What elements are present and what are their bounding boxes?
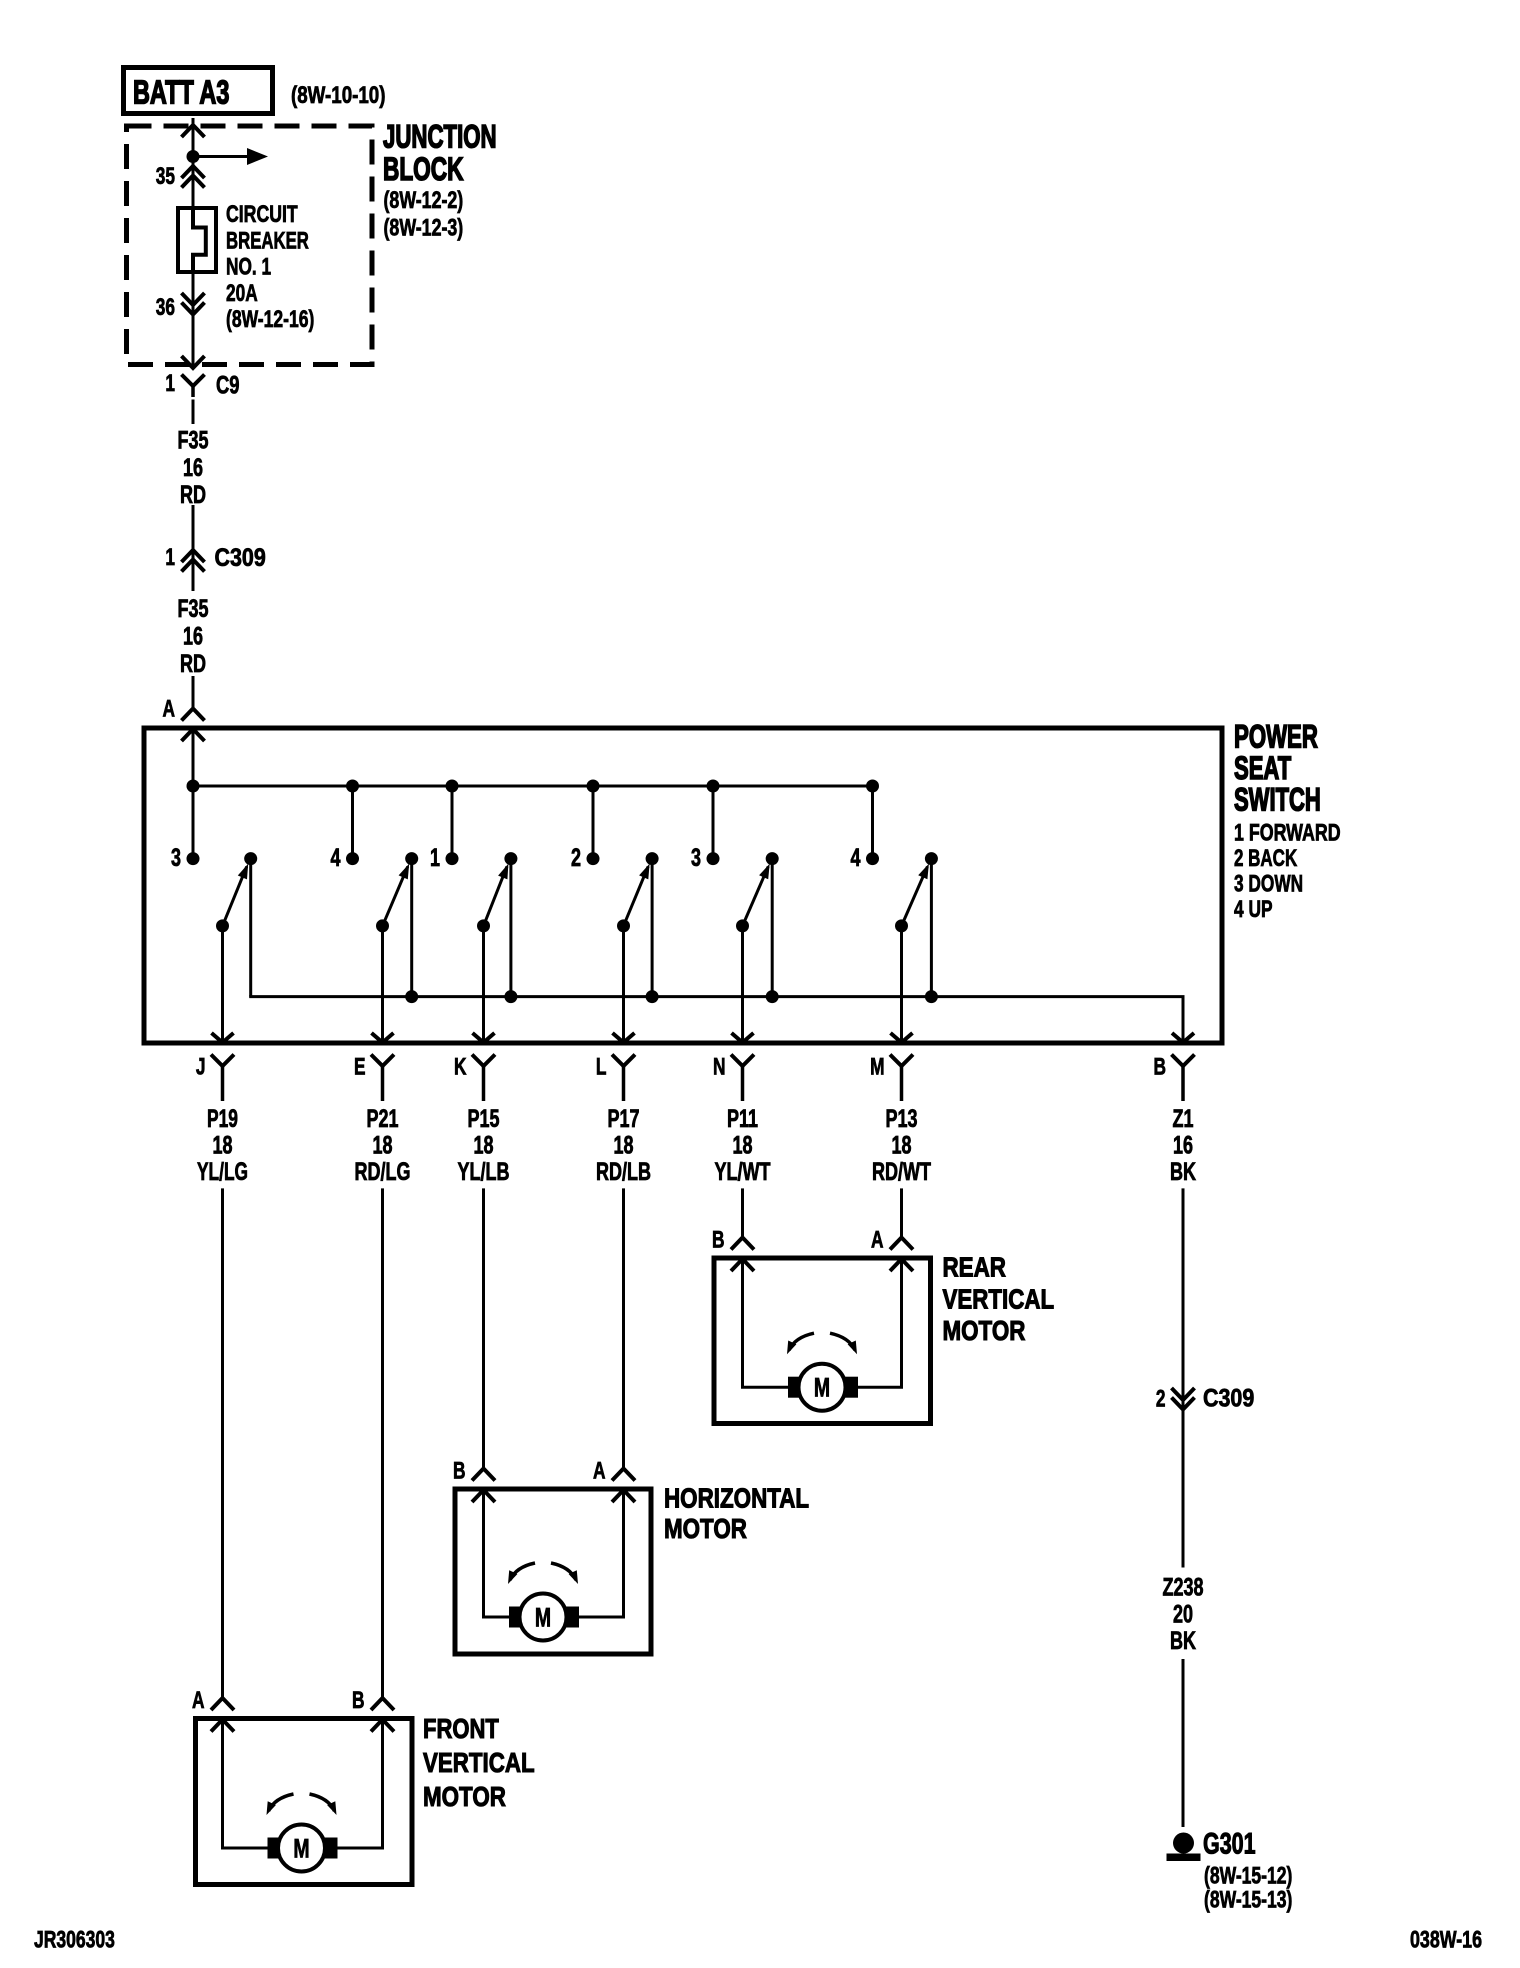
svg-text:YL/WT: YL/WT xyxy=(715,1158,771,1186)
svg-text:BLOCK: BLOCK xyxy=(383,151,464,187)
horizontal motor: pin A connector (motor side) xyxy=(612,1490,635,1502)
svg-text:4: 4 xyxy=(331,844,341,872)
horizontal motor: right lead wire xyxy=(563,1491,624,1618)
rear vertical motor: pin B connector (motor side) xyxy=(731,1259,754,1271)
svg-text:VERTICAL: VERTICAL xyxy=(943,1284,1055,1315)
svg-text:18: 18 xyxy=(213,1132,233,1160)
svg-text:(8W-15-12): (8W-15-12) xyxy=(1204,1863,1292,1890)
svg-text:B: B xyxy=(352,1687,365,1714)
svg-text:SWITCH: SWITCH xyxy=(1234,782,1321,818)
rear vertical motor: rotation arrows xyxy=(789,1333,814,1350)
splice dot at node xyxy=(187,150,200,163)
svg-text:Z238: Z238 xyxy=(1163,1574,1204,1602)
svg-text:(8W-12-2): (8W-12-2) xyxy=(384,187,464,214)
switch 3: wire contact down to common xyxy=(509,859,512,997)
svg-text:18: 18 xyxy=(614,1132,634,1160)
front vertical motor: left terminal xyxy=(268,1838,282,1859)
switch 4: wire contact down to common xyxy=(651,859,654,997)
front vertical motor: right lead wire xyxy=(322,1720,383,1848)
svg-text:3 DOWN: 3 DOWN xyxy=(1234,871,1303,898)
switch 5: wire contact down to common xyxy=(771,859,774,997)
svg-text:18: 18 xyxy=(892,1132,912,1160)
svg-text:F35: F35 xyxy=(178,595,209,623)
front vertical motor: right terminal xyxy=(324,1838,338,1859)
svg-text:BK: BK xyxy=(1170,1627,1196,1655)
svg-text:18: 18 xyxy=(474,1132,494,1160)
svg-text:L: L xyxy=(596,1054,607,1081)
switch 6: output arrow at box edge xyxy=(891,1033,913,1043)
svg-text:4 UP: 4 UP xyxy=(1234,896,1273,923)
common return output arrow at box edge xyxy=(1172,1033,1194,1043)
svg-text:18: 18 xyxy=(373,1132,393,1160)
switch 5: movable arm xyxy=(743,867,769,926)
switch 4: common line junction dot xyxy=(646,990,659,1003)
svg-text:2: 2 xyxy=(1156,1386,1166,1413)
switch 4: stub bus to contact xyxy=(592,786,595,859)
rear vertical motor: right lead wire xyxy=(842,1260,902,1388)
switch 3: output contact dot xyxy=(504,852,517,865)
svg-text:A: A xyxy=(871,1227,884,1254)
switch 5: pivot dot xyxy=(736,919,749,932)
switch 4: movable arm xyxy=(624,867,649,926)
switch 2: movable arm xyxy=(383,867,408,926)
connector chevron pin A (harness side) xyxy=(182,709,205,721)
rear vertical motor box xyxy=(714,1258,931,1424)
wire P21 to front vertical motor xyxy=(381,1188,384,1698)
switch 1: output arrow at box edge xyxy=(212,1033,234,1043)
switch 1: bus junction dot xyxy=(187,780,200,793)
switch 2: wire contact down to common xyxy=(410,859,413,997)
connector: double chevron pin 35 xyxy=(182,166,205,178)
svg-text:16: 16 xyxy=(183,454,203,482)
rear vertical motor: pin A connector (motor side) xyxy=(890,1259,913,1271)
rear vertical motor: motor body xyxy=(799,1364,846,1411)
svg-text:(8W-10-10): (8W-10-10) xyxy=(291,82,386,109)
svg-text:16: 16 xyxy=(1173,1132,1193,1160)
front vertical motor: pin B connector (harness) xyxy=(371,1698,394,1710)
feed arrow to other circuits xyxy=(193,155,248,158)
switch 3: common line junction dot xyxy=(504,990,517,1003)
switch 4: output arrow at box edge xyxy=(613,1033,635,1043)
svg-text:16: 16 xyxy=(183,623,203,651)
svg-text:18: 18 xyxy=(733,1132,753,1160)
svg-text:REAR: REAR xyxy=(943,1252,1007,1283)
internal bus wire xyxy=(193,785,873,788)
wire: breaker to junction block bottom xyxy=(192,274,195,366)
svg-text:P21: P21 xyxy=(367,1105,399,1133)
horizontal motor: left terminal xyxy=(509,1607,523,1628)
switch 6: bus junction dot xyxy=(866,780,879,793)
switch 5: wire pivot to output xyxy=(741,926,744,1043)
front vertical motor: motor body xyxy=(278,1825,325,1872)
wire to C309 xyxy=(192,505,195,573)
junction block dashed outline xyxy=(127,126,373,365)
connector chevron pin A (switch side) xyxy=(182,729,205,741)
battery feed box BATT A3 xyxy=(124,68,273,114)
svg-text:M: M xyxy=(293,1834,309,1864)
svg-text:RD: RD xyxy=(180,481,206,509)
switch 4: wire pivot to output xyxy=(622,926,625,1043)
connector Y at pin L xyxy=(612,1055,635,1067)
svg-text:NO. 1: NO. 1 xyxy=(226,254,271,281)
switch 3: bus junction dot xyxy=(446,780,459,793)
horizontal motor box xyxy=(455,1489,651,1654)
svg-text:2: 2 xyxy=(571,844,581,872)
switch 6: pivot dot xyxy=(895,919,908,932)
switch 4: output contact dot xyxy=(646,852,659,865)
horizontal motor: pin A connector (harness) xyxy=(612,1469,635,1481)
svg-text:FRONT: FRONT xyxy=(423,1713,499,1744)
switch 2: bus junction dot xyxy=(346,780,359,793)
svg-text:(8W-12-16): (8W-12-16) xyxy=(226,306,314,333)
switch 4: pivot dot xyxy=(617,919,630,932)
switch 3: output arrow at box edge xyxy=(473,1033,495,1043)
svg-text:M: M xyxy=(535,1603,551,1633)
switch 3: fixed contact dot (throw 1) xyxy=(446,852,459,865)
svg-text:RD/LB: RD/LB xyxy=(596,1158,651,1186)
svg-text:P15: P15 xyxy=(468,1105,500,1133)
switch 2: output arrow at box edge xyxy=(372,1033,394,1043)
switch 2: output contact dot xyxy=(405,852,418,865)
rear vertical motor: pin B connector (harness) xyxy=(731,1238,754,1250)
svg-text:(8W-15-13): (8W-15-13) xyxy=(1204,1887,1292,1914)
svg-text:(8W-12-3): (8W-12-3) xyxy=(384,215,464,242)
svg-text:Z1: Z1 xyxy=(1173,1105,1194,1133)
common return line xyxy=(251,995,1183,1043)
connector: double chevron down pin 36 xyxy=(182,293,205,305)
wire Z1 below C309 xyxy=(1182,1415,1185,1568)
horizontal motor: right terminal xyxy=(565,1607,579,1628)
svg-text:1: 1 xyxy=(430,844,440,872)
connector C9 symbol xyxy=(182,375,205,387)
switch 1: movable arm xyxy=(223,867,247,926)
switch 1: fixed contact dot (throw 3) xyxy=(187,852,200,865)
svg-text:RD/WT: RD/WT xyxy=(872,1158,931,1186)
switch 2: stub bus to contact xyxy=(351,786,354,859)
svg-text:VERTICAL: VERTICAL xyxy=(423,1747,535,1778)
svg-text:3: 3 xyxy=(171,844,181,872)
svg-text:MOTOR: MOTOR xyxy=(664,1513,747,1544)
svg-text:B: B xyxy=(1154,1054,1167,1081)
svg-text:MOTOR: MOTOR xyxy=(423,1781,506,1812)
svg-text:B: B xyxy=(453,1458,466,1485)
horizontal motor: motor body xyxy=(520,1594,567,1641)
svg-text:RD/LG: RD/LG xyxy=(355,1158,411,1186)
connector C309 double chevron xyxy=(182,550,205,562)
wire Z1 to C309 xyxy=(1182,1188,1185,1390)
connector Y at pin B xyxy=(1172,1055,1195,1067)
svg-text:CIRCUIT: CIRCUIT xyxy=(226,201,298,228)
svg-text:P19: P19 xyxy=(207,1105,238,1133)
connector Y at pin K xyxy=(472,1055,495,1067)
switch 1: output contact dot xyxy=(244,852,257,865)
switch 3: pivot dot xyxy=(477,919,490,932)
svg-text:MOTOR: MOTOR xyxy=(943,1315,1026,1346)
svg-text:RD: RD xyxy=(180,650,206,678)
connector Y at pin N xyxy=(731,1055,754,1067)
svg-text:F35: F35 xyxy=(178,427,209,455)
circuit breaker No.1 box xyxy=(178,208,216,272)
svg-text:N: N xyxy=(713,1054,726,1081)
svg-text:A: A xyxy=(163,696,176,723)
switch 1: wire pivot to output xyxy=(221,926,224,1043)
switch 6: stub bus to contact xyxy=(871,786,874,859)
svg-text:B: B xyxy=(712,1227,725,1254)
switch 6: common line junction dot xyxy=(925,990,938,1003)
wire to power seat switch xyxy=(192,676,195,709)
svg-text:20A: 20A xyxy=(226,280,258,307)
svg-text:E: E xyxy=(354,1054,366,1081)
svg-text:1 FORWARD: 1 FORWARD xyxy=(1234,820,1341,847)
switch 1: pivot dot xyxy=(216,919,229,932)
rear vertical motor: right terminal xyxy=(844,1377,858,1398)
front vertical motor: left lead wire xyxy=(223,1720,282,1848)
svg-text:JUNCTION: JUNCTION xyxy=(383,119,497,155)
front vertical motor: pin A connector (motor side) xyxy=(211,1720,234,1732)
svg-text:C309: C309 xyxy=(215,544,266,572)
wire F35 upper segment xyxy=(192,400,195,425)
switch 6: fixed contact dot (throw 4) xyxy=(866,852,879,865)
svg-text:P17: P17 xyxy=(608,1105,640,1133)
svg-text:M: M xyxy=(870,1054,884,1081)
wire P15 to horizontal motor xyxy=(482,1188,485,1468)
switch 6: output contact dot xyxy=(925,852,938,865)
svg-text:2 BACK: 2 BACK xyxy=(1234,845,1298,872)
svg-text:G301: G301 xyxy=(1203,1828,1256,1861)
switch 5: bus junction dot xyxy=(707,780,720,793)
switch 5: fixed contact dot (throw 3) xyxy=(707,852,720,865)
front vertical motor: pin A connector (harness) xyxy=(211,1698,234,1710)
svg-text:HORIZONTAL: HORIZONTAL xyxy=(664,1483,809,1514)
svg-text:K: K xyxy=(454,1054,467,1081)
power seat switch box xyxy=(144,728,1222,1043)
svg-text:1: 1 xyxy=(165,370,175,397)
svg-text:P13: P13 xyxy=(886,1105,918,1133)
rear vertical motor: left lead wire xyxy=(743,1260,803,1388)
switch 5: output contact dot xyxy=(766,852,779,865)
svg-text:A: A xyxy=(593,1458,606,1485)
circuit breaker element xyxy=(193,206,206,274)
svg-text:038W-16: 038W-16 xyxy=(1410,1927,1482,1954)
switch 2: fixed contact dot (throw 4) xyxy=(346,852,359,865)
wire P17 to horizontal motor xyxy=(622,1188,625,1468)
switch 2: common line junction dot xyxy=(405,990,418,1003)
switch 6: wire pivot to output xyxy=(900,926,903,1043)
svg-text:C9: C9 xyxy=(216,372,240,400)
svg-text:YL/LB: YL/LB xyxy=(458,1158,510,1186)
wire: BATT A3 feed into junction block xyxy=(192,118,195,206)
switch 5: output arrow at box edge xyxy=(732,1033,754,1043)
svg-text:BK: BK xyxy=(1170,1158,1196,1186)
switch 2: wire pivot to output xyxy=(381,926,384,1043)
svg-text:A: A xyxy=(192,1687,205,1714)
rear vertical motor: pin A connector (harness) xyxy=(890,1238,913,1250)
svg-text:35: 35 xyxy=(156,163,175,190)
horizontal motor: pin B connector (motor side) xyxy=(472,1490,495,1502)
svg-text:36: 36 xyxy=(156,294,175,321)
horizontal motor: pin B connector (harness) xyxy=(472,1469,495,1481)
switch 6: wire contact down to common xyxy=(930,859,933,997)
wire below C309 xyxy=(192,573,195,591)
svg-text:J: J xyxy=(196,1054,206,1081)
switch 5: common line junction dot xyxy=(766,990,779,1003)
svg-text:1: 1 xyxy=(165,544,175,571)
switch 1: stub bus to contact xyxy=(192,786,195,859)
svg-text:YL/LG: YL/LG xyxy=(197,1158,248,1186)
svg-text:BATT A3: BATT A3 xyxy=(133,74,229,111)
connector Y at pin J xyxy=(211,1055,234,1067)
switch 2: pivot dot xyxy=(376,919,389,932)
switch 6: movable arm xyxy=(902,867,928,926)
front vertical motor: pin B connector (motor side) xyxy=(371,1720,394,1732)
horizontal motor: rotation arrows xyxy=(510,1563,535,1580)
horizontal motor: left lead wire xyxy=(484,1491,524,1618)
connector Y at pin M xyxy=(890,1055,913,1067)
wire P19 to front vertical motor xyxy=(221,1188,224,1698)
front vertical motor box xyxy=(196,1719,413,1885)
connector chevron at junction block bottom xyxy=(182,356,205,368)
wire P11 to rear vertical motor xyxy=(741,1188,744,1237)
connector chevron at junction block top xyxy=(182,125,205,137)
switch 4: fixed contact dot (throw 2) xyxy=(587,852,600,865)
switch 1: wire contact down to common xyxy=(249,859,252,997)
svg-text:M: M xyxy=(814,1373,830,1403)
svg-text:C309: C309 xyxy=(1203,1385,1254,1413)
wire Z238 to ground xyxy=(1182,1659,1185,1827)
svg-text:P11: P11 xyxy=(727,1105,758,1133)
svg-text:4: 4 xyxy=(851,844,861,872)
connector C309 double chevron down xyxy=(1172,1388,1195,1400)
svg-text:3: 3 xyxy=(691,844,701,872)
wire P13 to rear vertical motor xyxy=(900,1188,903,1237)
front vertical motor: rotation arrows xyxy=(269,1794,294,1811)
switch 4: bus junction dot xyxy=(587,780,600,793)
rear vertical motor: left terminal xyxy=(788,1377,802,1398)
wire: internal feed to bus xyxy=(192,729,195,786)
switch 3: wire pivot to output xyxy=(482,926,485,1043)
svg-text:JR306303: JR306303 xyxy=(34,1927,115,1954)
svg-text:20: 20 xyxy=(1173,1601,1193,1629)
ground G301 symbol xyxy=(1173,1833,1194,1854)
switch 3: stub bus to contact xyxy=(451,786,454,859)
switch 3: movable arm xyxy=(484,867,507,926)
connector Y at pin E xyxy=(371,1055,394,1067)
svg-text:BREAKER: BREAKER xyxy=(226,227,309,254)
switch 5: stub bus to contact xyxy=(712,786,715,859)
